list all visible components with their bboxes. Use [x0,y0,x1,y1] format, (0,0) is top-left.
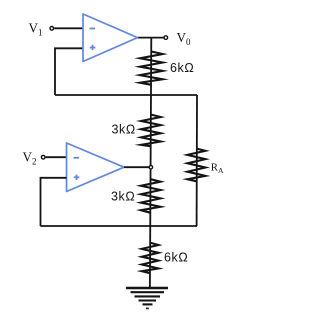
svg-text:3kΩ: 3kΩ [111,190,135,204]
op-amp U1 [83,14,138,62]
wire main branch V0 node down to ground [150,38,151,288]
wire U2 output to node A [124,166,150,168]
resistor R3 [141,179,161,213]
svg-text:6kΩ: 6kΩ [164,251,188,265]
svg-text:6kΩ: 6kΩ [170,61,194,75]
node A junction [149,166,152,169]
svg-text:3kΩ: 3kΩ [112,122,136,136]
resistor R2 [141,115,161,147]
svg-text:V1: V1 [29,21,43,38]
svg-text:RA: RA [211,162,224,175]
wire feedback net horizontal to RA top [55,94,197,96]
node V2 terminal [41,155,45,159]
wire U2 feedback: + input left and down [41,178,67,226]
svg-text:V0: V0 [177,30,192,47]
resistor R1 [140,52,163,85]
resistor RA [187,149,205,182]
resistor R4 [142,243,159,273]
node V1 terminal [50,27,54,31]
wire bottom net horizontal [41,225,198,227]
wire V1 to U1 inverting input [54,27,82,29]
op-amp U2 [67,143,125,192]
wire U1 feedback: + input left and down [55,48,83,95]
wire RA branch vertical [196,95,198,226]
wire U1 output to node V0 [138,37,165,39]
node V0 terminal [164,36,168,40]
svg-text:V2: V2 [23,149,37,166]
ground [126,288,168,308]
wire V2 to U2 inverting input [46,156,67,158]
